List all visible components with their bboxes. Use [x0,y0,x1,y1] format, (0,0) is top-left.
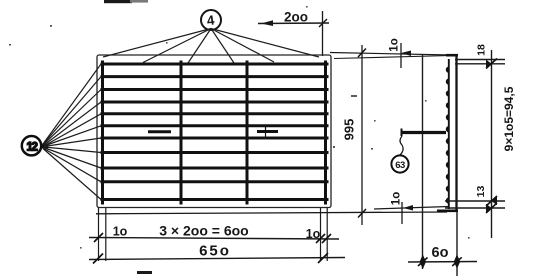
svg-text:12: 12 [27,142,38,154]
horizontal rebar 9 [101,167,329,170]
section right edge [455,55,457,213]
section left edge [422,55,424,264]
horizontal rebar 6 [101,124,329,127]
bottom extension lines left [98,208,100,261]
leader fan from circle 4 to top bar [103,29,319,64]
dimension line 650 [89,258,345,260]
dimension 200 arrow [261,20,273,26]
svg-text:63: 63 [395,160,405,171]
dimension 200 line [258,11,329,56]
horizontal rebar 8 [101,151,329,154]
svg-text:18: 18 [476,44,488,56]
bottom extension line to section [96,212,447,214]
right chain tick lines 18 top [455,59,505,61]
vertical rebar 1 [101,61,104,205]
horizontal rebar 7 [101,137,329,140]
horizontal rebar 4 [101,101,329,104]
svg-text:1o: 1o [391,192,403,205]
vertical rebar 2 [180,61,183,205]
dim 60 [456,211,458,276]
svg-text:13: 13 [475,186,487,198]
inner anchor bar in section [401,131,446,134]
section top edge [446,54,458,57]
svg-text:65o: 65o [199,243,231,260]
bottom title block mark [137,271,152,274]
callout circle 63 [391,155,408,172]
section bottom edge [437,210,458,213]
horizontal rebar 2 [101,75,329,78]
leader squiggle to circle 63 [400,136,403,155]
callout circle 12 [22,136,41,155]
paper specks [9,6,470,249]
svg-text:9×1o5=94,5: 9×1o5=94,5 [502,86,516,151]
horizontal rebar 5 [101,112,329,115]
horizontal rebar 3 [101,88,329,91]
section scallop line (cross bars) [448,59,450,209]
horizontal rebar 1 [101,63,329,66]
svg-text:3 × 2oo = 6oo: 3 × 2oo = 6oo [159,223,248,239]
bottom extension lines right [320,208,322,261]
right chain dimension line [491,50,493,238]
horizontal rebar 10 [101,180,329,183]
horizontal rebar 11 [101,198,329,201]
fan knot [42,144,49,149]
svg-text:1o: 1o [389,38,401,51]
svg-text:6o: 6o [432,245,449,261]
vertical rebar 4 [324,61,327,205]
right chain tick lines 13 bottom [445,200,505,202]
break dash left [148,130,171,133]
extension line grid top-right to section [330,53,451,56]
leader fan from circle 12 to bar ends [43,64,101,200]
top edge smudge mark [104,0,132,3]
svg-text:995: 995 [342,119,357,141]
dimension line 10/600/10 [89,238,339,240]
small dash near 995 [351,95,357,97]
dim 995 line [361,45,363,225]
grid outline (thin plate edge) [97,55,331,208]
vertical rebar 3 [246,61,249,205]
svg-text:1o: 1o [113,225,128,239]
break dash right with tick [257,130,278,133]
callout circle 4 [201,10,221,30]
svg-text:1o: 1o [306,227,321,241]
svg-text:2oo: 2oo [284,10,308,25]
chain ticks [486,59,497,214]
